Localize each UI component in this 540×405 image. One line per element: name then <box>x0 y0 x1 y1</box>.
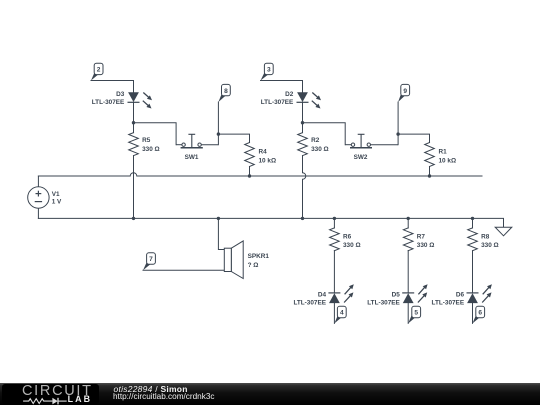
svg-text:10 kΩ: 10 kΩ <box>439 157 457 164</box>
resistor R8 <box>468 228 478 251</box>
wire R7 to LED D5 <box>407 251 409 293</box>
terminal flag 3 <box>261 63 274 80</box>
svg-text:10 kΩ: 10 kΩ <box>259 157 277 164</box>
wire LED D6 to flag6 <box>472 303 474 323</box>
svg-text:330 Ω: 330 Ω <box>142 146 160 153</box>
wire flag3 to LED D2 <box>261 81 303 93</box>
LED D4 <box>328 284 353 303</box>
wire V1 top lead <box>37 176 39 187</box>
svg-text:V1: V1 <box>52 191 60 198</box>
wire LED D4 to flag4 <box>333 303 335 323</box>
terminal flag 4 <box>334 306 346 323</box>
resistor R7 <box>403 228 413 251</box>
resistor R4 <box>245 143 255 167</box>
switch SW2 <box>345 134 398 148</box>
label D4 <box>293 291 326 306</box>
svg-text:D3: D3 <box>116 91 125 98</box>
svg-text:8: 8 <box>224 88 228 95</box>
svg-text:D5: D5 <box>392 291 401 298</box>
wire R5 bottom to bottom rail <box>133 156 135 219</box>
svg-text:4: 4 <box>340 310 344 317</box>
terminal flag 8 <box>218 84 230 102</box>
svg-text:D6: D6 <box>456 291 465 298</box>
svg-text:6: 6 <box>478 310 482 317</box>
LED D3 <box>128 92 153 108</box>
junction dots <box>132 121 474 220</box>
label R4 value <box>259 149 277 165</box>
wire R4 bottom to top rail <box>249 167 251 177</box>
terminal flag 7 <box>143 253 155 270</box>
terminal flag 9 <box>398 84 409 102</box>
label D3 <box>92 91 125 106</box>
wire R2 bottom to bottom rail with hop over top rail <box>303 156 306 219</box>
svg-text:330 Ω: 330 Ω <box>311 146 329 153</box>
logo resistor zigzag <box>23 399 52 404</box>
svg-text:3: 3 <box>267 67 271 74</box>
wire junction D2 to SW2 left <box>303 123 346 145</box>
wire SW2 right up to flag 9 <box>397 102 399 145</box>
svg-text:SPKR1: SPKR1 <box>248 253 270 260</box>
svg-text:LTL-307EE: LTL-307EE <box>293 300 326 307</box>
footer brand bar <box>0 383 540 405</box>
terminal flag 6 <box>473 306 485 323</box>
svg-text:330 Ω: 330 Ω <box>343 242 361 249</box>
label D6 <box>432 291 465 306</box>
wire SW1 junction to R4 top <box>218 134 249 142</box>
logo diode <box>52 398 57 405</box>
resistor R1 <box>425 143 435 167</box>
ground <box>495 227 512 236</box>
resistor R2 <box>298 133 308 156</box>
svg-text:R6: R6 <box>343 233 352 240</box>
label V1 value <box>52 191 62 206</box>
label R5 value <box>142 137 160 153</box>
label R6 value <box>343 233 361 249</box>
terminal flag 2 <box>91 63 103 80</box>
wire R8 to LED D6 <box>472 251 474 293</box>
wire flag2 to LED D3 <box>91 81 134 93</box>
wire SW1 right up to flag 8 <box>217 102 219 145</box>
svg-text:2: 2 <box>97 67 101 74</box>
LED D6 <box>467 284 492 303</box>
svg-text:D4: D4 <box>318 291 327 298</box>
svg-text:R2: R2 <box>311 137 320 144</box>
svg-text:LTL-307EE: LTL-307EE <box>367 300 400 307</box>
resistor R5 <box>129 133 139 156</box>
svg-text:330 Ω: 330 Ω <box>481 242 499 249</box>
svg-text:SW2: SW2 <box>354 154 368 161</box>
wire junction D3 to SW1 left <box>134 123 177 145</box>
wire rail to R8 <box>472 218 474 228</box>
LED D5 <box>402 284 427 303</box>
wire LED D2 cathode to junction and down to R2 <box>302 102 304 132</box>
switch SW1 <box>176 134 218 148</box>
svg-text:R7: R7 <box>417 233 426 240</box>
svg-text:R1: R1 <box>439 149 448 156</box>
svg-text:R8: R8 <box>481 233 490 240</box>
svg-text:5: 5 <box>414 310 418 317</box>
wire LED D3 cathode to junction and down to R5 <box>133 102 135 132</box>
svg-text:SW1: SW1 <box>185 154 199 161</box>
wire top rail with hop at x=133.5 <box>38 173 482 176</box>
svg-text:330 Ω: 330 Ω <box>417 242 435 249</box>
voltage source V1 <box>28 187 49 208</box>
label R7 value <box>417 233 435 249</box>
label D5 <box>367 291 400 306</box>
svg-text:7: 7 <box>149 256 153 263</box>
svg-text:9: 9 <box>403 88 407 95</box>
terminal flag 5 <box>408 306 420 323</box>
wire rail to R6 <box>333 218 335 228</box>
resistor R6 <box>330 228 340 251</box>
wire R6 to LED D4 <box>333 251 335 293</box>
wire SW2 junction to R1 top <box>398 134 429 142</box>
label R2 value <box>311 137 329 153</box>
wire R1 bottom to top rail <box>429 167 431 177</box>
label R1 value <box>439 149 457 165</box>
wire speaker top lead <box>218 218 224 249</box>
svg-text:D2: D2 <box>285 91 294 98</box>
wire rail to R7 <box>407 218 409 228</box>
wire LED D5 to flag5 <box>407 303 409 323</box>
label R8 value <box>481 233 499 249</box>
svg-text:LTL-307EE: LTL-307EE <box>261 99 294 106</box>
svg-text:R4: R4 <box>259 149 268 156</box>
svg-text:LTL-307EE: LTL-307EE <box>432 300 465 307</box>
label D2 <box>261 91 294 106</box>
svg-text:LTL-307EE: LTL-307EE <box>92 99 125 106</box>
svg-text:R5: R5 <box>142 137 151 144</box>
speaker SPKR1 <box>224 241 243 279</box>
svg-text:? Ω: ? Ω <box>248 262 259 269</box>
wire V1 bottom lead <box>37 208 39 218</box>
wire flag7 to speaker bottom <box>143 269 224 271</box>
svg-text:1 V: 1 V <box>52 199 62 206</box>
LED D2 <box>297 92 322 108</box>
wire bottom rail to ground <box>38 218 503 227</box>
label SPKR1 value <box>248 253 270 269</box>
